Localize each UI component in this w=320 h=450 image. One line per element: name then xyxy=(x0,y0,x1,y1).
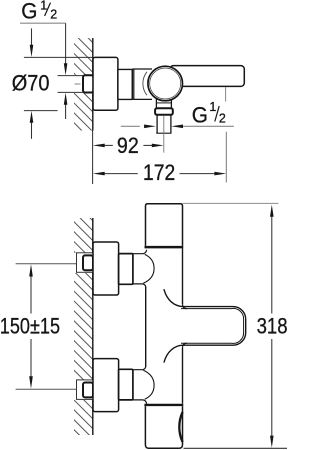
leader shelf right of port xyxy=(183,125,234,127)
318 dim arrowhead down xyxy=(270,436,274,448)
union nut bottom (lower view) xyxy=(119,369,133,400)
union nut (top view) xyxy=(118,69,132,99)
supply coupling top (thick) xyxy=(83,255,93,270)
172 right extension line (spout end) xyxy=(225,132,227,183)
150 dim ext line top (center line of top inlet) xyxy=(16,263,90,265)
leader line left of port xyxy=(121,125,140,127)
center dash of inlet pipe (top view) xyxy=(75,83,81,85)
wall surface line (top view) xyxy=(92,38,94,131)
150±15 dimension xyxy=(0,264,60,389)
phi70 dim arrowhead up xyxy=(30,111,34,123)
318 top extension line xyxy=(183,202,279,204)
G1/2 dim line upper segment xyxy=(65,23,67,63)
svg-text:Ø70: Ø70 xyxy=(12,70,50,95)
318 dimension xyxy=(257,205,288,448)
92 dimension xyxy=(93,133,164,158)
svg-text:1: 1 xyxy=(40,0,47,13)
body left edge xyxy=(145,287,147,367)
bottom handle thick top line xyxy=(144,404,183,407)
label G1/2 #2 (at port) xyxy=(121,87,234,128)
spout outline (outer) xyxy=(164,289,246,362)
wall extension line down to dimensions xyxy=(92,131,94,185)
318 dim arrowhead up xyxy=(270,205,274,217)
172 dimension xyxy=(93,132,226,185)
318 dim line lower segment xyxy=(271,339,273,436)
dim ext line phi70 top xyxy=(24,56,93,58)
union bell bottom xyxy=(133,366,154,404)
label shelf line xyxy=(20,22,66,24)
union bell top xyxy=(133,250,154,288)
svg-text:150±15: 150±15 xyxy=(0,314,60,339)
valve body circle (top view) xyxy=(148,66,183,101)
150±15 dim line upper segment xyxy=(30,276,32,313)
318 dim line upper segment xyxy=(271,217,273,314)
supply coupling bottom (thick) xyxy=(83,383,93,398)
wall surface line (lower view) xyxy=(92,218,94,435)
svg-text:2: 2 xyxy=(50,8,57,22)
port tube xyxy=(156,115,158,133)
svg-text:318: 318 xyxy=(257,314,287,339)
172 dim line left segment xyxy=(104,173,138,175)
svg-text:G: G xyxy=(192,102,208,127)
G1/2 ext line top xyxy=(58,75,84,77)
G1/2 dim arrowhead up xyxy=(64,93,68,105)
escutcheon (top view) xyxy=(93,57,118,110)
port center line xyxy=(163,116,165,153)
172 dim arrowhead right xyxy=(214,172,226,176)
G1/2 dim line lower segment xyxy=(65,105,67,120)
phi70 dim line lower segment xyxy=(31,123,33,139)
fraction slash xyxy=(45,3,51,16)
92 dim line right segment xyxy=(143,144,152,146)
172 dim line right segment xyxy=(180,173,215,175)
body corner arcs into spout xyxy=(183,304,188,308)
arrowhead pointing left at port xyxy=(171,125,183,129)
arrowhead pointing right at port xyxy=(144,125,156,129)
escutcheon bottom (lower view) xyxy=(93,359,119,412)
bottom handle (lower view) xyxy=(145,406,182,448)
top handle (lower view) xyxy=(146,204,183,246)
svg-text:92: 92 xyxy=(117,133,139,158)
svg-text:2: 2 xyxy=(219,111,226,125)
318 bottom extension line xyxy=(184,447,288,449)
union body between nut and valve (top view) xyxy=(132,69,152,99)
supply socket bottom (thin) xyxy=(77,380,94,400)
150±15 dim arrowhead down xyxy=(29,376,33,389)
92 dim arrowhead right xyxy=(152,144,164,148)
wall hatching (top view) xyxy=(74,38,93,75)
bottom handle inner crescent xyxy=(179,412,182,442)
92 dim arrowhead left xyxy=(93,144,105,148)
fraction slash (port label) xyxy=(215,106,219,121)
port collar nut xyxy=(155,108,173,115)
svg-text:172: 172 xyxy=(143,160,175,185)
top handle thick base line xyxy=(145,246,184,249)
leader up to spout bar xyxy=(225,87,227,102)
shower port neck below circle xyxy=(156,96,171,108)
172 dim arrowhead left xyxy=(93,172,105,176)
phi70 dim arrowhead down xyxy=(30,45,34,57)
label G1/2 (top-left) xyxy=(20,0,66,24)
svg-text:1: 1 xyxy=(209,100,216,114)
washer arc behind valve circle xyxy=(143,72,147,95)
supply socket top (thin) xyxy=(77,253,94,272)
spout inner line xyxy=(181,308,244,343)
92 dim line left segment xyxy=(104,144,113,146)
G1/2 ext line bottom xyxy=(58,91,84,93)
150 dim ext line bottom xyxy=(16,388,90,390)
supply pipe coupling (top view) xyxy=(83,75,93,92)
dim ext line phi70 bottom xyxy=(24,110,58,112)
union nut top (lower view) xyxy=(119,254,133,285)
150±15 dim line lower segment xyxy=(30,339,32,377)
spout / handle bar (top view) xyxy=(170,66,244,87)
150±15 dim arrowhead up xyxy=(29,264,33,276)
body right edge xyxy=(182,248,184,304)
wall hatching (lower view) xyxy=(74,218,93,253)
phi70 dim line upper segment xyxy=(31,28,33,45)
svg-text:G: G xyxy=(21,0,37,24)
escutcheon top (lower view) xyxy=(93,242,119,295)
G1/2 dim arrowhead down xyxy=(64,63,68,75)
